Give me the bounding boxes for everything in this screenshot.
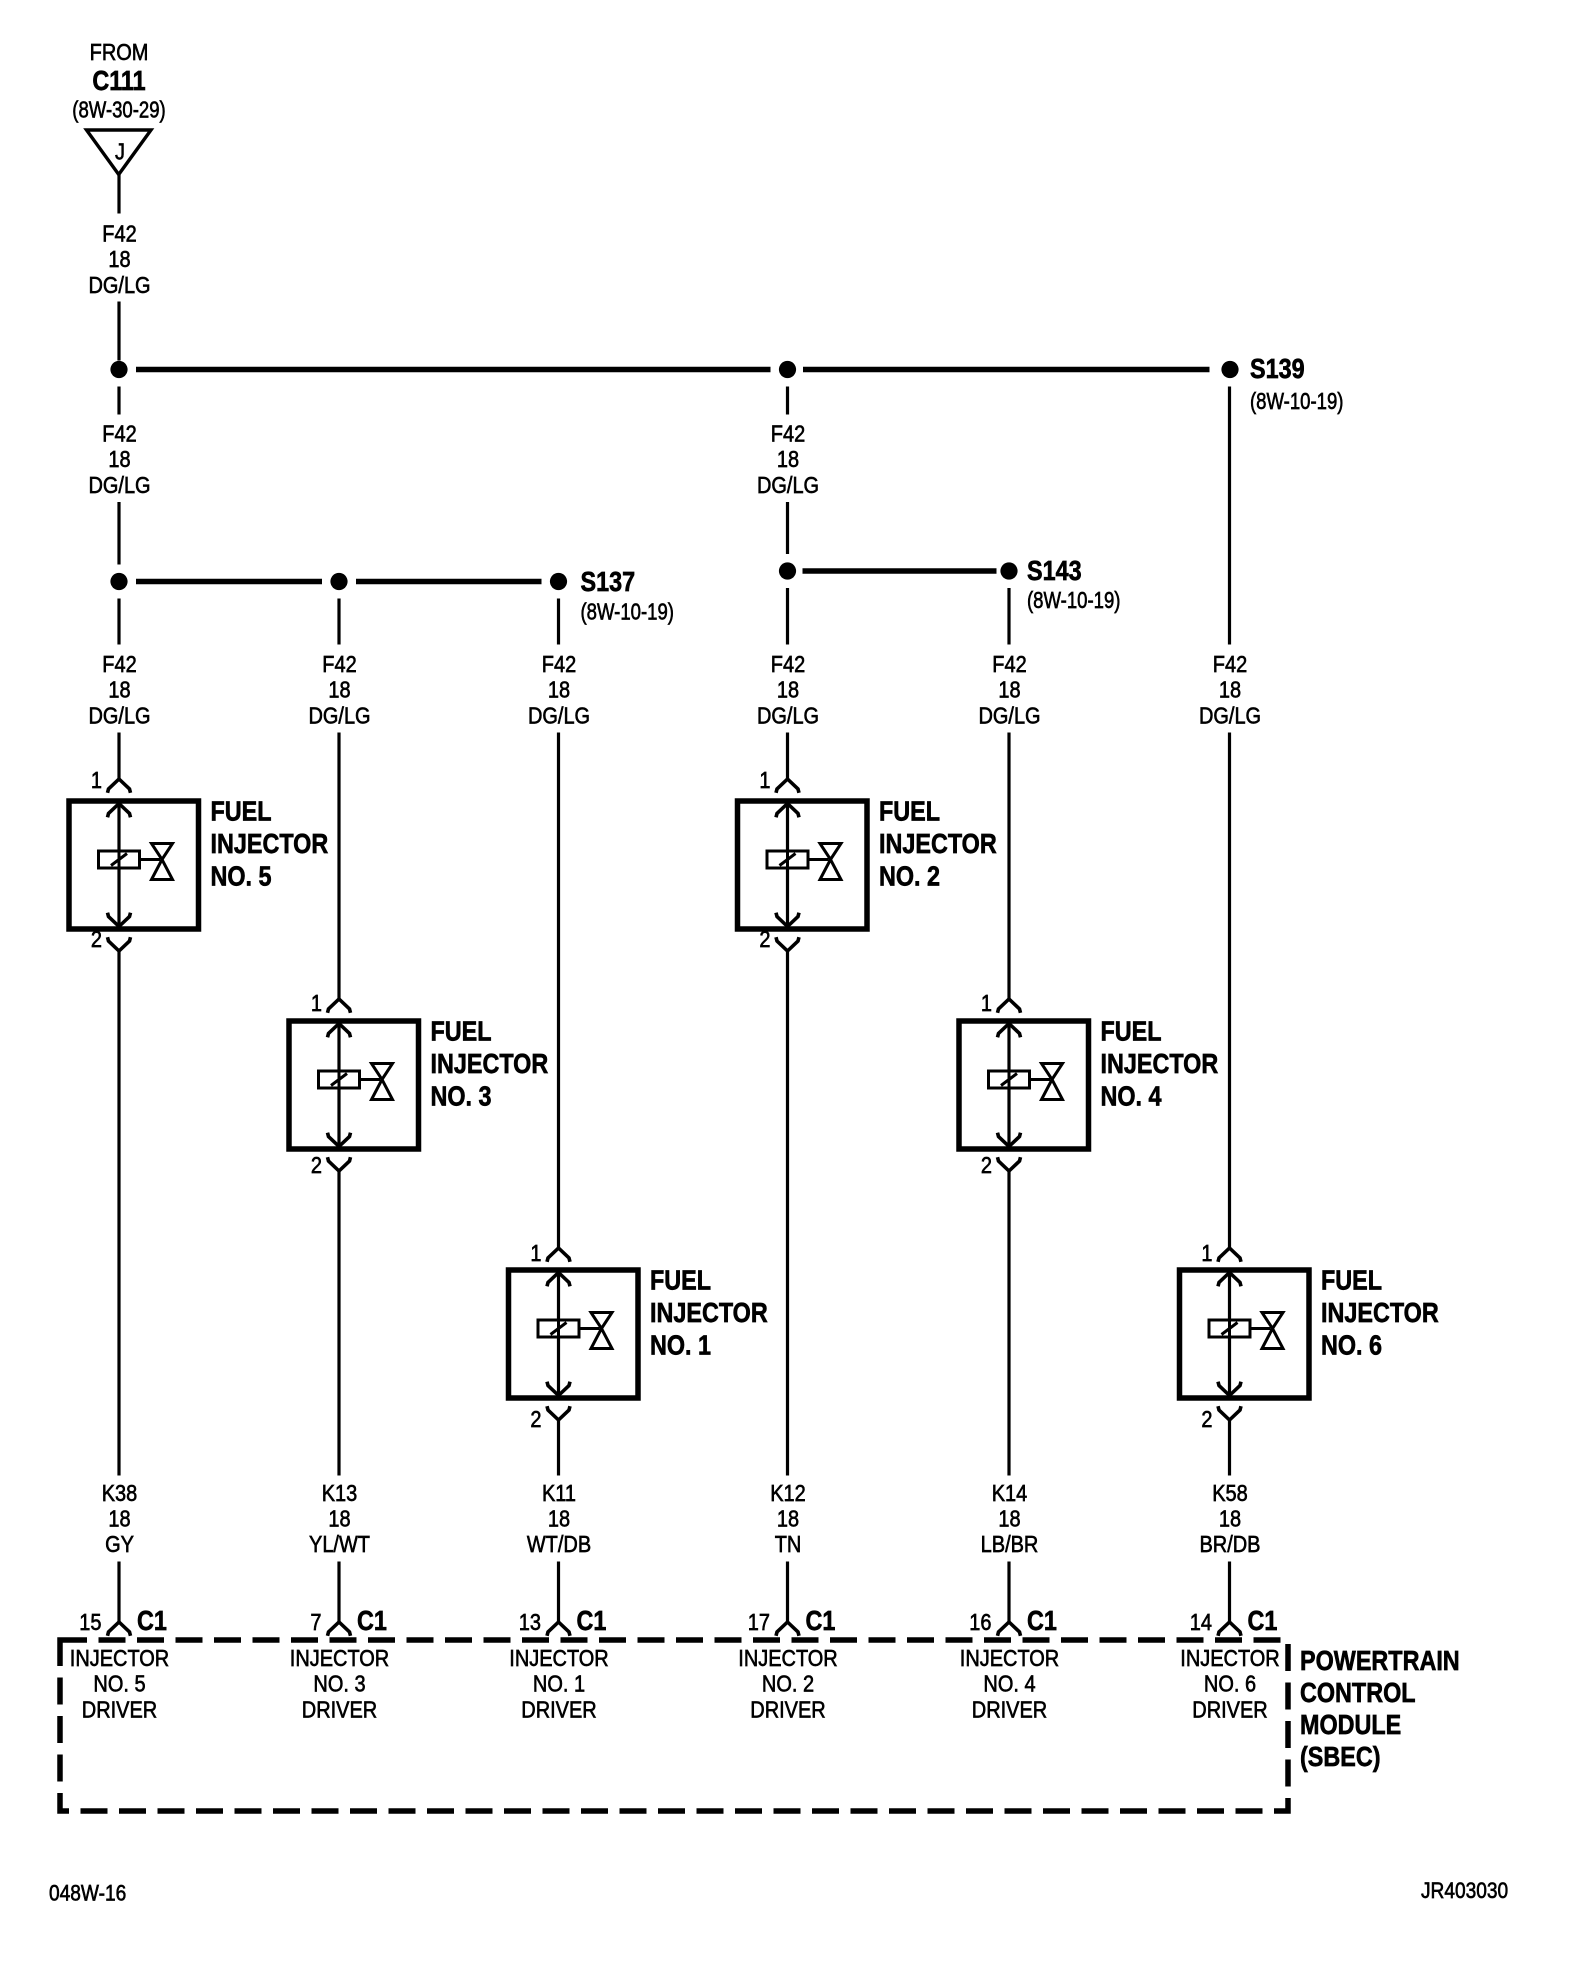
- svg-text:INJECTOR: INJECTOR: [70, 1644, 169, 1671]
- svg-text:NO. 6: NO. 6: [1204, 1670, 1256, 1697]
- name label, fuel injector no. 5: [211, 797, 329, 892]
- pin 1 connector arrows, injector no. 6: [1218, 1248, 1241, 1286]
- svg-text:F42: F42: [102, 650, 136, 677]
- pin 2 connector arrows, injector no. 6: [1218, 1382, 1241, 1420]
- svg-text:18: 18: [777, 1505, 799, 1532]
- svg-text:FUEL: FUEL: [1321, 1266, 1382, 1296]
- svg-text:INJECTOR: INJECTOR: [960, 1644, 1059, 1671]
- svg-text:K12: K12: [770, 1479, 806, 1506]
- svg-text:NO. 2: NO. 2: [879, 862, 940, 892]
- wire F42 18 DG/LG col3 (to injector pin 1): [528, 599, 590, 1249]
- svg-text:DRIVER: DRIVER: [1192, 1696, 1267, 1723]
- splice bus to S143 (horizontal): [803, 568, 997, 574]
- name label, fuel injector no. 1: [650, 1266, 768, 1361]
- pin 1 connector arrows, injector no. 2: [776, 779, 799, 817]
- svg-text:INJECTOR: INJECTOR: [509, 1644, 608, 1671]
- svg-text:INJECTOR: INJECTOR: [1180, 1644, 1279, 1671]
- powertrain control module (SBEC) dashed outline: [60, 1640, 1460, 1811]
- wire F42 18 DG/LG col2 (to injector pin 1): [308, 599, 370, 1000]
- pin 1 connector arrows, injector no. 3: [328, 999, 351, 1037]
- injector no. 3 driver label: [290, 1644, 389, 1722]
- svg-text:18: 18: [777, 445, 799, 472]
- svg-text:INJECTOR: INJECTOR: [738, 1644, 837, 1671]
- fuel injector no. 6 (col6): [1180, 1239, 1439, 1432]
- PCM pin 16 connector C1 (injector no. 4 driver): [960, 1606, 1059, 1722]
- solenoid coil, injector no. 3: [319, 1071, 360, 1088]
- svg-text:18: 18: [108, 445, 130, 472]
- svg-text:17: 17: [748, 1608, 770, 1635]
- svg-text:1: 1: [1201, 1239, 1212, 1266]
- svg-text:CONTROL: CONTROL: [1300, 1678, 1416, 1708]
- svg-text:F42: F42: [102, 220, 136, 247]
- nozzle valve, injector no. 4: [1030, 1064, 1063, 1100]
- svg-text:DG/LG: DG/LG: [1199, 702, 1261, 729]
- injector no. 6 body box: [1180, 1270, 1310, 1398]
- nozzle valve, injector no. 6: [1250, 1313, 1283, 1349]
- pin 2 connector arrows, injector no. 5: [108, 913, 131, 951]
- svg-text:C1: C1: [577, 1606, 607, 1636]
- svg-text:C1: C1: [137, 1606, 167, 1636]
- pin 13 connector arrow: [547, 1622, 570, 1636]
- wire K13 18 YL/WT col2 (injector pin 2 to PCM): [309, 1171, 370, 1622]
- svg-text:1: 1: [311, 989, 322, 1016]
- splice S139 (8W-10-19): [1221, 354, 1343, 414]
- solenoid coil, injector no. 2: [767, 851, 808, 868]
- wire F42 18 DG/LG col4 (bus S139 to bus S143): [757, 387, 819, 555]
- nozzle valve, injector no. 3: [360, 1064, 393, 1100]
- svg-text:JR403030: JR403030: [1421, 1879, 1508, 1904]
- internal conductor, injector no. 6: [1228, 1273, 1231, 1396]
- svg-text:NO. 1: NO. 1: [650, 1331, 711, 1361]
- svg-text:F42: F42: [102, 420, 136, 447]
- pin 14 connector arrow: [1218, 1622, 1241, 1636]
- connector C111 from (8W-30-29): [72, 38, 165, 174]
- injector no. 2 driver label: [738, 1644, 837, 1722]
- svg-text:F42: F42: [1213, 650, 1247, 677]
- injector no. 2 body box: [738, 801, 868, 929]
- svg-text:13: 13: [519, 1608, 541, 1635]
- pin 16 connector arrow: [998, 1622, 1021, 1636]
- svg-text:1: 1: [530, 1239, 541, 1266]
- wire F42 18 DG/LG col1 (bus S139 to bus S137): [88, 387, 150, 565]
- svg-text:FUEL: FUEL: [211, 797, 272, 827]
- svg-text:DG/LG: DG/LG: [308, 702, 370, 729]
- svg-text:(8W-10-19): (8W-10-19): [1250, 389, 1343, 415]
- svg-text:INJECTOR: INJECTOR: [650, 1298, 768, 1328]
- svg-text:DRIVER: DRIVER: [972, 1696, 1047, 1723]
- fuel injector no. 4 (col5): [959, 989, 1218, 1178]
- svg-text:NO. 3: NO. 3: [431, 1082, 492, 1112]
- svg-text:F42: F42: [542, 650, 576, 677]
- name label, fuel injector no. 3: [431, 1017, 549, 1112]
- wire K38 18 GY col1 (injector pin 2 to PCM): [102, 951, 138, 1622]
- svg-text:2: 2: [91, 925, 102, 952]
- internal conductor, injector no. 5: [117, 804, 120, 927]
- svg-text:NO. 5: NO. 5: [211, 862, 272, 892]
- svg-text:1: 1: [759, 766, 770, 793]
- svg-text:INJECTOR: INJECTOR: [290, 1644, 389, 1671]
- svg-text:16: 16: [969, 1608, 991, 1635]
- svg-text:J: J: [115, 138, 125, 165]
- svg-text:NO. 3: NO. 3: [313, 1670, 365, 1697]
- injector no. 4 body box: [959, 1021, 1089, 1149]
- svg-text:TN: TN: [775, 1530, 802, 1557]
- svg-text:NO. 1: NO. 1: [533, 1670, 585, 1697]
- name label, fuel injector no. 4: [1101, 1017, 1219, 1112]
- svg-text:YL/WT: YL/WT: [309, 1530, 370, 1557]
- fuel injector no. 2 (col4): [738, 766, 997, 952]
- injector no. 1 body box: [509, 1270, 639, 1398]
- pin 1 connector arrows, injector no. 5: [108, 779, 131, 817]
- wire F42 18 DG/LG col5 (to injector pin 1): [978, 588, 1040, 999]
- pin 2 connector arrows, injector no. 3: [328, 1133, 351, 1171]
- wire F42 18 DG/LG col6 (to injector pin 1): [1199, 387, 1261, 1249]
- svg-text:FUEL: FUEL: [431, 1017, 492, 1047]
- svg-text:DG/LG: DG/LG: [757, 702, 819, 729]
- svg-text:18: 18: [328, 676, 350, 703]
- wire F42 18 DG/LG from C111 (col1 top): [88, 175, 150, 361]
- svg-text:K14: K14: [992, 1479, 1028, 1506]
- svg-text:K58: K58: [1212, 1479, 1248, 1506]
- svg-text:K38: K38: [102, 1479, 138, 1506]
- splice bus to S137 (horizontal): [136, 579, 542, 585]
- svg-text:15: 15: [79, 1608, 101, 1635]
- solenoid coil, injector no. 1: [538, 1320, 579, 1337]
- wire F42 18 DG/LG col1 (to injector pin 1): [88, 599, 150, 780]
- splice S137 (8W-10-19): [550, 567, 674, 625]
- svg-text:NO. 4: NO. 4: [983, 1670, 1035, 1697]
- svg-text:INJECTOR: INJECTOR: [211, 829, 329, 859]
- svg-text:NO. 5: NO. 5: [93, 1670, 145, 1697]
- svg-text:2: 2: [530, 1405, 541, 1432]
- internal conductor, injector no. 2: [786, 804, 789, 927]
- wire F42 18 DG/LG col4 (to injector pin 1): [757, 588, 819, 779]
- svg-text:DG/LG: DG/LG: [978, 702, 1040, 729]
- svg-text:DG/LG: DG/LG: [528, 702, 590, 729]
- svg-text:2: 2: [1201, 1405, 1212, 1432]
- svg-text:F42: F42: [771, 420, 805, 447]
- pin 2 connector arrows, injector no. 4: [998, 1133, 1021, 1171]
- svg-text:18: 18: [777, 676, 799, 703]
- junction node col4/bus1: [779, 361, 796, 378]
- svg-text:INJECTOR: INJECTOR: [879, 829, 997, 859]
- svg-text:1: 1: [91, 766, 102, 793]
- fuel injector no. 3 (col2): [289, 989, 548, 1178]
- svg-text:K13: K13: [322, 1479, 358, 1506]
- PCM pin 15 connector C1 (injector no. 5 driver): [70, 1606, 169, 1722]
- svg-text:18: 18: [1219, 676, 1241, 703]
- fuel injector no. 1 (col3): [509, 1239, 768, 1432]
- svg-text:S143: S143: [1027, 556, 1082, 586]
- svg-text:S137: S137: [581, 567, 636, 597]
- svg-text:(8W-30-29): (8W-30-29): [72, 98, 165, 124]
- svg-text:DG/LG: DG/LG: [757, 471, 819, 498]
- svg-text:FUEL: FUEL: [1101, 1017, 1162, 1047]
- junction node col1/bus1: [110, 361, 127, 378]
- svg-text:DRIVER: DRIVER: [750, 1696, 825, 1723]
- wire K14 18 LB/BR col5 (injector pin 2 to PCM): [981, 1171, 1039, 1622]
- svg-text:DG/LG: DG/LG: [88, 702, 150, 729]
- fuel injector no. 5 (col1): [69, 766, 328, 952]
- svg-text:FUEL: FUEL: [650, 1266, 711, 1296]
- svg-text:18: 18: [998, 676, 1020, 703]
- svg-text:DG/LG: DG/LG: [88, 471, 150, 498]
- PCM pin 7 connector C1 (injector no. 3 driver): [290, 1606, 389, 1722]
- svg-text:NO. 6: NO. 6: [1321, 1331, 1382, 1361]
- svg-text:C1: C1: [357, 1606, 387, 1636]
- svg-text:14: 14: [1190, 1608, 1212, 1635]
- svg-text:(SBEC): (SBEC): [1300, 1742, 1381, 1772]
- svg-text:18: 18: [1219, 1505, 1241, 1532]
- svg-text:(8W-10-19): (8W-10-19): [1027, 588, 1120, 614]
- svg-text:C1: C1: [1027, 1606, 1057, 1636]
- svg-text:NO. 2: NO. 2: [762, 1670, 814, 1697]
- solenoid coil, injector no. 6: [1209, 1320, 1250, 1337]
- pin 15 connector arrow: [108, 1622, 131, 1636]
- svg-text:DRIVER: DRIVER: [302, 1696, 377, 1723]
- pin 2 connector arrows, injector no. 1: [547, 1382, 570, 1420]
- svg-text:DRIVER: DRIVER: [82, 1696, 157, 1723]
- solenoid coil, injector no. 5: [99, 851, 140, 868]
- internal conductor, injector no. 4: [1007, 1024, 1010, 1147]
- PCM pin 13 connector C1 (injector no. 1 driver): [509, 1606, 608, 1722]
- pin 1 connector arrows, injector no. 4: [998, 999, 1021, 1037]
- splice S143 (8W-10-19): [1000, 556, 1120, 613]
- injector no. 1 driver label: [509, 1644, 608, 1722]
- svg-text:18: 18: [998, 1505, 1020, 1532]
- svg-text:C111: C111: [92, 66, 145, 96]
- svg-text:1: 1: [981, 989, 992, 1016]
- junction node col1/bus S137: [110, 573, 127, 590]
- pin 2 connector arrows, injector no. 2: [776, 913, 799, 951]
- junction node col2/bus S137: [330, 573, 347, 590]
- PCM pin 17 connector C1 (injector no. 2 driver): [738, 1606, 837, 1722]
- name label, fuel injector no. 2: [879, 797, 997, 892]
- svg-text:MODULE: MODULE: [1300, 1710, 1401, 1740]
- svg-text:BR/DB: BR/DB: [1199, 1530, 1260, 1557]
- svg-text:LB/BR: LB/BR: [981, 1530, 1039, 1557]
- splice bus to S139 (horizontal): [136, 367, 1210, 373]
- pin 7 connector arrow: [328, 1622, 351, 1636]
- svg-text:F42: F42: [992, 650, 1026, 677]
- svg-text:18: 18: [108, 676, 130, 703]
- svg-text:F42: F42: [322, 650, 356, 677]
- svg-text:(8W-10-19): (8W-10-19): [581, 600, 674, 626]
- svg-text:C1: C1: [806, 1606, 836, 1636]
- PCM pin 14 connector C1 (injector no. 6 driver): [1180, 1606, 1279, 1722]
- svg-text:18: 18: [108, 1505, 130, 1532]
- wire K58 18 BR/DB col6 (injector pin 2 to PCM): [1199, 1420, 1260, 1622]
- injector no. 6 driver label: [1180, 1644, 1279, 1722]
- svg-text:2: 2: [311, 1151, 322, 1178]
- nozzle valve, injector no. 5: [140, 844, 173, 880]
- svg-text:18: 18: [548, 676, 570, 703]
- svg-text:NO. 4: NO. 4: [1101, 1082, 1163, 1112]
- svg-text:WT/DB: WT/DB: [527, 1530, 591, 1557]
- svg-text:INJECTOR: INJECTOR: [1321, 1298, 1439, 1328]
- svg-text:POWERTRAIN: POWERTRAIN: [1300, 1646, 1460, 1676]
- wire K12 18 TN col4 (injector pin 2 to PCM): [770, 951, 806, 1622]
- solenoid coil, injector no. 4: [989, 1071, 1030, 1088]
- svg-text:2: 2: [759, 925, 770, 952]
- svg-text:F42: F42: [771, 650, 805, 677]
- injector no. 5 driver label: [70, 1644, 169, 1722]
- svg-text:048W-16: 048W-16: [49, 1881, 126, 1906]
- svg-text:INJECTOR: INJECTOR: [431, 1049, 549, 1079]
- pin 17 connector arrow: [776, 1622, 799, 1636]
- svg-text:S139: S139: [1250, 354, 1305, 384]
- name label, fuel injector no. 6: [1321, 1266, 1439, 1361]
- svg-text:K11: K11: [542, 1479, 576, 1506]
- svg-text:2: 2: [981, 1151, 992, 1178]
- svg-text:GY: GY: [105, 1530, 134, 1557]
- internal conductor, injector no. 3: [337, 1024, 340, 1147]
- junction node col4/bus S143: [779, 562, 796, 579]
- svg-text:INJECTOR: INJECTOR: [1101, 1049, 1219, 1079]
- svg-text:DRIVER: DRIVER: [521, 1696, 596, 1723]
- internal conductor, injector no. 1: [557, 1273, 560, 1396]
- svg-text:18: 18: [108, 246, 130, 273]
- nozzle valve, injector no. 2: [808, 844, 841, 880]
- injector no. 3 body box: [289, 1021, 419, 1149]
- svg-text:18: 18: [548, 1505, 570, 1532]
- injector no. 5 body box: [69, 801, 199, 929]
- svg-text:18: 18: [328, 1505, 350, 1532]
- injector no. 4 driver label: [960, 1644, 1059, 1722]
- nozzle valve, injector no. 1: [579, 1313, 612, 1349]
- pin 1 connector arrows, injector no. 1: [547, 1248, 570, 1286]
- svg-text:FROM: FROM: [90, 38, 149, 65]
- svg-text:DG/LG: DG/LG: [88, 271, 150, 298]
- wire K11 18 WT/DB col3 (injector pin 2 to PCM): [527, 1420, 591, 1622]
- svg-text:C1: C1: [1248, 1606, 1278, 1636]
- svg-text:FUEL: FUEL: [879, 797, 940, 827]
- svg-text:7: 7: [310, 1608, 321, 1635]
